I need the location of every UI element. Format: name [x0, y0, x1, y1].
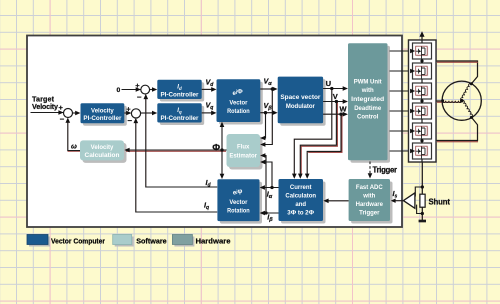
arrow Id feedback up into d node [144, 94, 149, 99]
arrow ADC into Current Calculation [323, 199, 328, 204]
svg-text:with: with [361, 88, 374, 94]
node: V beta tap [264, 111, 267, 114]
svg-text:Integrated: Integrated [351, 97, 384, 103]
svg-text:ω: ω [71, 144, 77, 151]
wire: I beta line into e -jphi [262, 212, 278, 214]
arrow Vd into ejPhi [211, 87, 216, 92]
wire: Vd line [202, 88, 214, 90]
svg-text:Velocity: Velocity [91, 145, 114, 151]
wire: V beta tap down to Flux Estimator [263, 113, 266, 138]
wire: V line to PWM [323, 101, 346, 103]
svg-text:Modulator: Modulator [286, 104, 316, 110]
wire: Id feedback [146, 97, 217, 187]
svg-text:Rotation: Rotation [227, 109, 250, 115]
MOTOR [441, 81, 481, 120]
arrow into Velocity PI [75, 111, 80, 116]
svg-text:Vector Computer: Vector Computer [51, 236, 105, 245]
svg-text:–: – [60, 115, 65, 124]
winding lower right [462, 100, 474, 117]
arrow Iq feedback up into q node [134, 118, 139, 123]
svg-text:PI-Controller: PI-Controller [161, 116, 200, 122]
SHUNT SENSE [403, 162, 426, 221]
block: Space vector Modulator [278, 77, 326, 126]
transistor Q4 [413, 103, 432, 119]
wire: phase W to motor [422, 118, 478, 141]
svg-text:Control: Control [357, 115, 379, 121]
wire: summing node to Velocity PI [73, 112, 78, 114]
svg-text:Hardware: Hardware [196, 236, 231, 245]
arrow Valpha into Flux Estimator [260, 136, 265, 141]
arrow Ialpha into Flux Estimator [260, 153, 265, 158]
BLOCKS [80, 43, 393, 223]
node: V tap [335, 100, 338, 103]
legend swatch: Software [115, 237, 134, 247]
wire: W line to PWM [323, 113, 346, 115]
wire: bridge DC bus vertical [421, 40, 423, 162]
svg-text:Fast ADC: Fast ADC [356, 185, 383, 191]
node: phase taps [420, 59, 423, 142]
wire: phase V to motor [422, 100, 443, 102]
arrow Vq into ejPhi [211, 111, 216, 116]
block: Current Calculation and 3ph to 2ph [279, 179, 326, 224]
svg-text:Deadtime: Deadtime [354, 106, 382, 112]
op-amp sense amplifier [403, 193, 415, 208]
red print misregistration accents [68, 103, 343, 177]
block: PWM Unit (hardware) [348, 43, 390, 163]
transistor Q3 [413, 83, 432, 99]
svg-text:PI-Controller: PI-Controller [83, 116, 122, 122]
svg-text:Hardware: Hardware [356, 202, 384, 208]
winding upper right [460, 83, 471, 101]
arrow W into PWM [343, 112, 348, 117]
arrow Phi up into e jPhi bottom [220, 122, 225, 127]
wire: V beta line [260, 112, 275, 114]
block: Flux Estimator (software) [227, 134, 263, 170]
summing node speed [64, 109, 73, 118]
wire: Phi branch up to e jPhi block [221, 125, 223, 150]
svg-text:and: and [295, 202, 306, 208]
svg-text:Flux: Flux [237, 145, 250, 151]
arrow Ibeta into e -jphi [260, 211, 265, 216]
node: star point and terminals [441, 82, 473, 119]
arrow Ialpha into e -jphi [260, 185, 265, 190]
arrow Valpha into SVM [272, 87, 277, 92]
wire: Phi branch down to e -jphi block [221, 150, 223, 176]
arrow into q node [126, 111, 131, 116]
ground [419, 220, 426, 223]
gate arrowheads into each transistor [410, 49, 415, 154]
transistor Q6 [413, 143, 432, 159]
wire: bridge to shunt [421, 162, 423, 194]
wire: V alpha line [260, 88, 275, 90]
svg-text:PWM Unit: PWM Unit [354, 79, 382, 85]
arrow into Id PI [152, 87, 157, 92]
bridge outer frame [409, 40, 437, 162]
svg-text:Velocity: Velocity [32, 102, 58, 111]
summing node d-axis [141, 85, 150, 94]
wire: V tap down to Current Calculation [300, 102, 336, 177]
block: Fast ADC (hardware) [349, 179, 393, 224]
wire: target velocity into summing node [31, 112, 64, 114]
arrow W phase into Current Calculation [305, 174, 310, 179]
arrow shunt signal into Fast ADC [391, 199, 396, 203]
block: e -jphi Vector Rotation [217, 179, 262, 223]
arrow Vbeta into SVM [272, 110, 277, 115]
arrow target velocity into speed node [58, 110, 63, 115]
wire: zero reference into d node [122, 89, 141, 91]
LEGEND [27, 235, 231, 247]
wire: d node to Id PI [150, 89, 155, 91]
wire: I beta tap up to Flux Estimator [263, 156, 266, 214]
block: Velocity Calculation (software) [80, 140, 127, 163]
node: I beta tap [264, 211, 267, 214]
wire: sense taps [415, 187, 422, 197]
junction dots [220, 87, 342, 215]
arrow Ibeta into Flux Estimator [260, 160, 265, 165]
wire: V alpha tap down to Flux Estimator [263, 89, 273, 145]
wire: Phi line from Flux Estimator to Velocity Calculation [127, 149, 227, 151]
svg-text:+: + [126, 104, 131, 113]
node: shunt taps [421, 185, 424, 188]
wire: shunt amp to Fast ADC [395, 200, 403, 202]
motor M stator circle [442, 81, 481, 120]
node: W tap [339, 113, 342, 116]
transistor Q2 [413, 63, 432, 79]
svg-text:–: – [128, 116, 133, 125]
svg-text:W: W [340, 104, 348, 113]
wire: q node to Iq PI [141, 112, 155, 114]
svg-text:Trigger: Trigger [359, 210, 380, 216]
wire: I alpha line into e -jphi [262, 187, 278, 189]
wire: Fast ADC to Current Calculation [326, 200, 349, 202]
svg-text:Φ: Φ [212, 142, 220, 153]
block: Iq PI-Controller [157, 103, 204, 125]
arrow zero ref into d node [136, 87, 141, 92]
INVERTER BRIDGE [390, 31, 479, 162]
svg-text:U: U [326, 79, 331, 88]
arrow Vbeta into Flux Estimator [260, 142, 265, 147]
svg-text:with: with [362, 194, 375, 200]
winding left [443, 83, 474, 117]
svg-text:3Φ to 2Φ: 3Φ to 2Φ [287, 209, 314, 216]
summing junction circles [64, 85, 150, 118]
wire: Vq line [202, 112, 214, 114]
svg-text:Trigger: Trigger [373, 165, 398, 174]
svg-text:Id: Id [177, 85, 182, 91]
svg-text:+: + [59, 103, 64, 112]
summing node q-axis [131, 109, 140, 118]
svg-text:Calculation: Calculation [85, 153, 120, 159]
wire: W tap down to Current Calculation [307, 114, 341, 176]
wire: U line to PWM [323, 88, 346, 90]
wire: phase U to motor [422, 61, 478, 83]
svg-text:Shunt: Shunt [429, 198, 451, 207]
svg-text:–: – [137, 93, 142, 102]
block: Id PI-Controller [157, 80, 204, 102]
arrow U phase into Current Calculation [292, 174, 297, 179]
svg-text:Iq: Iq [177, 108, 182, 114]
node: U tap [330, 87, 333, 90]
wire: U tap down to Current Calculation [294, 89, 332, 177]
arrow Phi into Velocity Calculation [124, 148, 129, 153]
wire: omega feedback from Velocity Calculation to node [68, 121, 80, 151]
block: e jPhi Vector Rotation [217, 79, 263, 124]
svg-text:Calculaton: Calculaton [285, 194, 316, 200]
arrow Phi down into e -jphi top [220, 174, 225, 179]
svg-text:V: V [333, 92, 338, 101]
wire: six PWM gate lines to bridge [390, 51, 411, 151]
arrow omega up into node [66, 118, 71, 123]
wire: shunt to ground [421, 207, 423, 220]
svg-text:Estimator: Estimator [229, 154, 257, 160]
svg-text:Space vector: Space vector [280, 95, 321, 101]
legend swatch: Vector Computer [29, 237, 50, 247]
legend swatch: Hardware [174, 237, 194, 247]
node: V alpha tap [271, 87, 274, 90]
node: I alpha tap [270, 186, 273, 189]
svg-text:Rotation: Rotation [227, 209, 250, 215]
svg-text:Vector: Vector [229, 200, 248, 206]
transistor Q5 [413, 123, 432, 139]
svg-text:Vector: Vector [229, 100, 248, 106]
transistor Q1 [413, 43, 432, 59]
wire: Velocity PI to q summing node [124, 112, 129, 114]
white diagram panel [27, 36, 402, 228]
svg-text:Software: Software [136, 236, 167, 245]
arrow into Iq PI [152, 111, 157, 116]
WIRES (black with dark-red shadow) [31, 86, 404, 215]
node: Phi junction [220, 148, 223, 151]
resistor shunt [420, 194, 425, 207]
dashed trigger arrow [368, 162, 373, 179]
arrow V into PWM [343, 99, 348, 104]
arrow V phase into Current Calculation [298, 174, 303, 179]
wire: DC supply riser with up arrow [421, 36, 423, 40]
red misregistration on phase wires [437, 62, 478, 142]
arrow U into PWM [343, 86, 348, 91]
wire: Iq feedback [136, 121, 217, 212]
arrowheads [58, 86, 395, 215]
svg-text:Current: Current [290, 185, 312, 191]
svg-text:0: 0 [117, 87, 121, 94]
svg-text:+: + [135, 81, 140, 90]
svg-text:Velocity: Velocity [91, 109, 114, 115]
block: Velocity PI-Controller [81, 103, 127, 125]
wire: I alpha tap up to Flux Estimator [263, 162, 272, 188]
svg-text:PI-Controller: PI-Controller [161, 92, 200, 98]
